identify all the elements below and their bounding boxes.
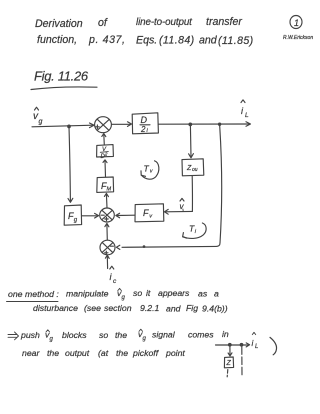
block Fm [97,177,114,193]
svg-text:and: and [166,304,182,314]
svg-text:of: of [98,17,108,29]
wire Zout down to v node corner [191,176,193,212]
figure label underline [31,87,97,90]
svg-text:9.2.1: 9.2.1 [140,303,159,313]
svg-text:L: L [245,112,249,119]
svg-text:in: in [222,329,229,339]
svg-text:R.W.Erickson: R.W.Erickson [283,35,313,41]
svg-text:push: push [20,330,40,340]
svg-text:g: g [143,336,147,342]
svg-text:output: output [65,348,90,358]
svg-text:M: M [107,187,112,193]
svg-text:point: point [165,348,185,358]
svg-text:g: g [50,337,54,343]
svg-text:comes: comes [188,330,214,340]
svg-text:c: c [113,278,117,285]
wire ic input up to S3 [106,256,108,269]
loop gain label Tv [141,161,159,179]
wire V over D2 up to S1 [103,134,106,145]
svg-text:near: near [22,348,40,358]
svg-text:Derivation: Derivation [35,18,83,30]
mini wire down to box Z [229,346,231,356]
page number circle 1 [290,16,302,29]
mini node d2 [240,344,243,347]
mini diagram wire with iL arrow [216,344,249,346]
svg-text:and: and [199,35,218,47]
svg-text:manipulate: manipulate [66,289,109,299]
block Fv [135,204,164,222]
svg-text:(at: (at [98,348,109,358]
svg-text:so: so [133,288,142,298]
svg-text:9.4(b)): 9.4(b)) [202,304,228,314]
svg-text:blocks: blocks [62,330,87,340]
summing junction S3 bottom [100,240,115,255]
summing junction S1 top [95,117,112,133]
svg-text:pickoff: pickoff [132,348,160,358]
mini dashed line right [241,347,243,375]
loop gain label Ti [183,223,207,238]
wire S3 up to S2 [106,224,108,240]
wire v hat to Fv input [165,210,192,212]
svg-text:so: so [99,330,108,340]
mini iL label [252,339,259,350]
svg-text:section: section [104,303,132,313]
svg-text:method :: method : [25,289,59,299]
wire vg input to summing node [32,125,93,127]
summing junction S2 middle [100,208,115,222]
title line 2 [37,34,254,47]
svg-text:2: 2 [140,125,146,134]
wire bottom feedback to S3 [122,243,220,247]
block V over D2 [97,145,114,160]
node ic label [110,272,118,285]
svg-text:it: it [146,288,151,298]
svg-text:Fig. 11.26: Fig. 11.26 [34,69,89,84]
mini dashed below box [226,370,229,377]
node vg input label [33,111,43,126]
svg-text:signal: signal [152,330,176,340]
wire Fm up to block V over D2 [104,160,107,177]
bottom note line 2 [33,303,228,314]
svg-text:v: v [149,214,153,220]
node A junction dot [68,125,71,128]
title line 1 [35,16,242,30]
svg-text:i: i [241,106,244,116]
wire S1 to block D/2i [112,123,131,125]
svg-text:i: i [195,229,197,235]
block Fg [64,205,81,225]
wire S2 up to Fm [105,194,108,208]
svg-text:1: 1 [294,18,299,28]
svg-text:i: i [252,339,254,348]
svg-text:(see: (see [84,303,101,313]
svg-text:g: g [122,295,126,301]
svg-text:ou: ou [192,167,198,173]
implies arrow [8,332,19,340]
wire Fg to summing node S2 [82,215,98,217]
svg-text:D: D [141,115,148,125]
bottom note line 3 [20,329,229,343]
svg-text:p. 437,: p. 437, [88,34,126,46]
wire block output to iL arrow [158,123,249,125]
svg-text:as: as [198,289,208,299]
mini block Z [224,357,233,368]
svg-text:Z: Z [226,360,232,367]
svg-text:L: L [255,344,258,350]
svg-text:function,: function, [37,34,77,46]
svg-text:v: v [150,169,154,175]
svg-text:g: g [39,119,43,126]
mini node d1 [229,344,232,347]
svg-text:Eqs.: Eqs. [136,35,157,47]
svg-text:the: the [116,348,128,358]
block Zout [182,159,204,176]
bottom note line 4 [22,348,185,358]
underline one method [7,301,59,303]
svg-text:line-to-output: line-to-output [136,17,193,28]
wire node B down into Zout [189,125,192,157]
wire Fv to summing node S2 [117,214,136,216]
node C junction dot [219,123,221,125]
svg-text:disturbance: disturbance [33,303,78,313]
svg-text:the: the [47,348,59,358]
hats over vg symbols in notes [46,288,256,334]
svg-text:(11.84): (11.84) [159,35,195,47]
svg-text:g: g [74,218,78,224]
svg-text:the: the [115,330,127,340]
wire node A down to Fg [69,127,70,201]
svg-text:a: a [214,289,219,299]
svg-text:appears: appears [158,288,190,298]
wire node C down right side [220,124,222,243]
node B junction dot [189,123,192,126]
svg-text:v: v [180,202,185,211]
bottom note line 1 [8,288,219,301]
svg-text:T: T [144,164,150,174]
svg-text:Fig: Fig [186,303,198,313]
svg-text:F: F [143,208,149,218]
block D over 2i [132,113,158,134]
svg-text:(11.85): (11.85) [218,35,254,47]
closing paren [270,337,277,354]
svg-text:transfer: transfer [206,16,242,28]
node iL output label [241,106,249,119]
svg-text:one: one [8,289,23,299]
